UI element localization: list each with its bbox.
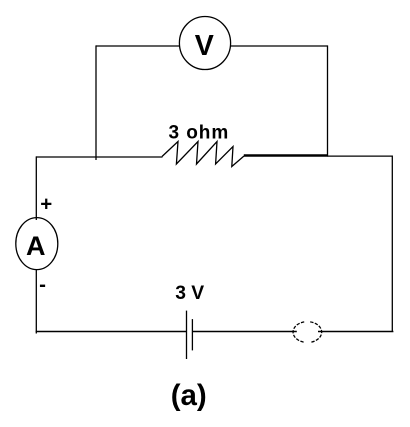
svg-text:-: - <box>39 273 46 296</box>
svg-text:3 ohm: 3 ohm <box>169 122 230 143</box>
svg-text:V: V <box>195 30 214 62</box>
svg-text:A: A <box>26 231 46 261</box>
svg-text:(a): (a) <box>171 379 207 412</box>
svg-text:+: + <box>40 192 52 215</box>
svg-text:3 V: 3 V <box>175 283 204 304</box>
